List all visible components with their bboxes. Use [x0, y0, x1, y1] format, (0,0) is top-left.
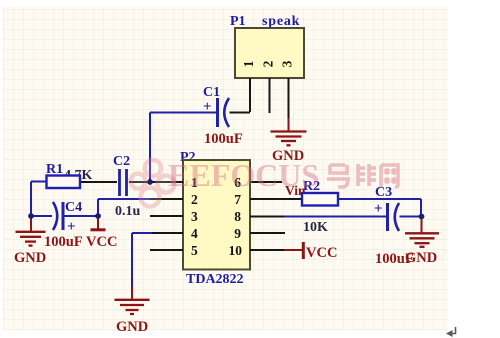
svg-text:GND: GND [116, 319, 148, 335]
svg-text:10: 10 [229, 243, 243, 258]
ground symbol under P1 [271, 132, 307, 146]
ground symbol left [16, 232, 46, 246]
capacitor C2 plate left [118, 169, 121, 196]
wire P1 pin3 to ground [288, 118, 290, 131]
svg-text:C3: C3 [375, 185, 392, 200]
wire node C up [97, 199, 99, 216]
svg-text:VCC: VCC [86, 234, 117, 250]
IC U1 pin 6 stub [250, 181, 282, 183]
wire R2 right down to node D [420, 199, 422, 217]
svg-text:3: 3 [280, 60, 295, 67]
capacitor C1 curved plate [224, 98, 229, 127]
wire C1 left [150, 112, 216, 114]
svg-text:4: 4 [191, 226, 198, 241]
wire U1 pin4 down [131, 233, 133, 287]
power symbol VCC left [97, 216, 99, 229]
svg-text:GND: GND [405, 250, 437, 266]
capacitor C2 plate right [125, 169, 128, 196]
wire U1 pin10 to VCC [284, 249, 302, 251]
capacitor C4 curved plate [53, 202, 57, 230]
svg-text:1: 1 [241, 60, 256, 67]
wire C4 to node C [64, 215, 99, 217]
capacitor C1 positive plate [216, 98, 219, 127]
svg-text:C4: C4 [65, 200, 82, 215]
wire C3 to node D [400, 216, 423, 218]
svg-text:100uF: 100uF [44, 234, 83, 250]
IC U1 pin 1 stub [150, 181, 183, 183]
IC U1 pin 2 stub [150, 198, 183, 200]
svg-text:3: 3 [191, 209, 198, 224]
svg-text:5: 5 [191, 243, 198, 258]
svg-text:10K: 10K [303, 220, 328, 235]
wire U1 pin4 left [132, 232, 152, 234]
capacitor C3 positive plate [386, 203, 389, 231]
IC U1 pin 7 stub [250, 198, 302, 200]
wire R1 left down to node B [30, 182, 32, 217]
svg-text:speak: speak [262, 14, 300, 29]
power symbol VCC right [302, 242, 305, 259]
IC U1 pin 5 stub [150, 249, 183, 251]
IC U1 pin 8 stub [250, 216, 284, 218]
resistor R2 body [302, 193, 338, 206]
wire node B to C4 [31, 215, 52, 217]
IC U1 pin 9 stub [250, 232, 285, 234]
watermark text CJK [327, 164, 398, 187]
wire node D to ground [421, 217, 423, 233]
svg-text:+: + [374, 201, 383, 217]
svg-text:VCC: VCC [306, 245, 337, 261]
node B junction dot [28, 213, 34, 219]
resistor R1 body [47, 176, 81, 189]
connector P1 body [235, 28, 304, 78]
IC U1 pin 3 stub [150, 215, 183, 217]
paragraph return mark [450, 327, 456, 334]
node C junction dot [95, 213, 101, 219]
wire C1 to node A [149, 113, 151, 183]
capacitor C4 positive plate [62, 202, 65, 230]
wire R1 left [31, 181, 47, 183]
wire C2 to U1 pin1 [129, 181, 183, 183]
wire R2 right [338, 198, 421, 200]
svg-text:2: 2 [191, 192, 198, 207]
svg-text:0.1u: 0.1u [115, 204, 141, 219]
wire to bottom ground [131, 287, 133, 299]
svg-text:+: + [67, 219, 76, 235]
svg-text:9: 9 [234, 226, 241, 241]
svg-text:7: 7 [234, 192, 241, 207]
svg-text:GND: GND [14, 250, 46, 266]
svg-text:8: 8 [234, 209, 241, 224]
svg-text:100uF: 100uF [204, 131, 243, 147]
svg-text:C1: C1 [203, 85, 220, 100]
IC U1 body TDA2822 [183, 160, 250, 270]
node D junction dot [419, 214, 425, 220]
watermark logo flower [131, 160, 175, 207]
ground symbol bottom [115, 300, 150, 314]
wire C1 right to P1 pin1 [230, 112, 251, 114]
svg-text:2: 2 [261, 60, 276, 67]
ground symbol right [405, 233, 439, 247]
IC U1 pin 4 stub [150, 232, 183, 234]
wire node B to ground [30, 216, 32, 231]
wire node C to U1 pin2 [98, 198, 152, 200]
svg-text:TDA2822: TDA2822 [186, 272, 244, 287]
svg-text:P1: P1 [230, 14, 246, 29]
svg-text:EEFOCUS: EEFOCUS [168, 157, 319, 193]
svg-text:C2: C2 [113, 154, 130, 169]
wire P1 pin3 down [288, 78, 290, 118]
wire P1 pin2 down [269, 78, 271, 113]
wire P1 pin1 down [249, 78, 251, 112]
wire U1 pin8 to C3 [284, 216, 386, 218]
node A junction dot [147, 179, 153, 185]
capacitor C3 curved plate [395, 203, 399, 231]
IC U1 pin 10 stub [250, 249, 284, 251]
wire R1 to C2 [80, 181, 117, 183]
